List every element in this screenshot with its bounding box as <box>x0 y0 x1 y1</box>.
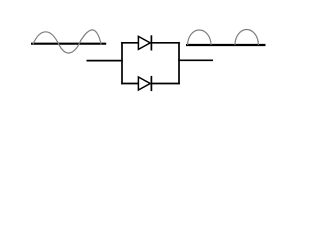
wire: right vertical of diode loop <box>178 42 180 84</box>
input AC sine wave <box>33 30 101 53</box>
diode D2 (bottom) <box>138 76 151 91</box>
wire: output lead <box>178 59 213 61</box>
output rectified waveform baseline <box>186 44 266 46</box>
wire: bottom rail left segment <box>121 83 138 85</box>
wire: left vertical of diode loop <box>121 42 123 84</box>
output rectified hump 2 <box>235 29 258 45</box>
wire: top rail left segment <box>121 42 138 44</box>
diode D1 (top) <box>138 35 151 50</box>
input AC waveform baseline <box>31 43 106 45</box>
wire: input lead <box>87 60 123 62</box>
output rectified hump 1 <box>188 30 211 45</box>
wire: bottom rail right segment <box>151 83 179 85</box>
wire: top rail right segment <box>151 42 179 44</box>
